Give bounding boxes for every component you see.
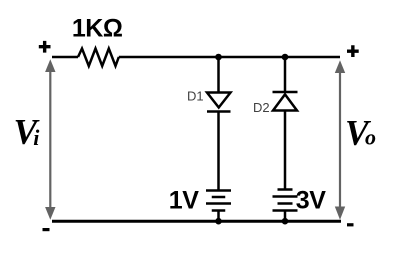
wire D2 branch lower (284, 111, 287, 190)
node junction bottom left (215, 218, 222, 225)
wire D2 branch upper (284, 57, 287, 92)
svg-text:o: o (365, 125, 376, 150)
minus sign input (43, 228, 50, 231)
wire D2 battery to bottom rail (284, 211, 287, 222)
svg-text:3V: 3V (296, 187, 326, 215)
wire D1 branch upper (217, 57, 220, 92)
wire bottom rail (52, 220, 341, 223)
wire D1 battery to bottom rail (217, 211, 220, 222)
svg-text:1KΩ: 1KΩ (72, 15, 123, 43)
node junction top left (215, 54, 222, 61)
svg-text:D2: D2 (253, 100, 270, 115)
svg-text:i: i (33, 125, 40, 150)
svg-text:1V: 1V (169, 187, 199, 215)
label Vo (345, 112, 376, 152)
plus sign output (347, 45, 359, 57)
diode D1 (207, 93, 231, 112)
node junction bottom right (282, 218, 289, 225)
node junction top right (282, 54, 289, 61)
svg-text:D1: D1 (187, 89, 204, 104)
Vo measurement arrow (double headed, gray) (335, 60, 345, 220)
Vi measurement arrow (double headed, gray) (45, 59, 55, 219)
diode D2 (273, 92, 298, 111)
resistor R1 1KΩ (78, 49, 119, 67)
label Vi (14, 112, 41, 152)
battery B2 3V (273, 190, 298, 211)
wire top left segment (52, 56, 78, 59)
minus sign output (347, 223, 354, 226)
plus sign input (39, 41, 51, 53)
battery B1 1V (206, 191, 231, 211)
wire D1 branch lower (217, 112, 220, 191)
wire top right segment (119, 56, 340, 59)
